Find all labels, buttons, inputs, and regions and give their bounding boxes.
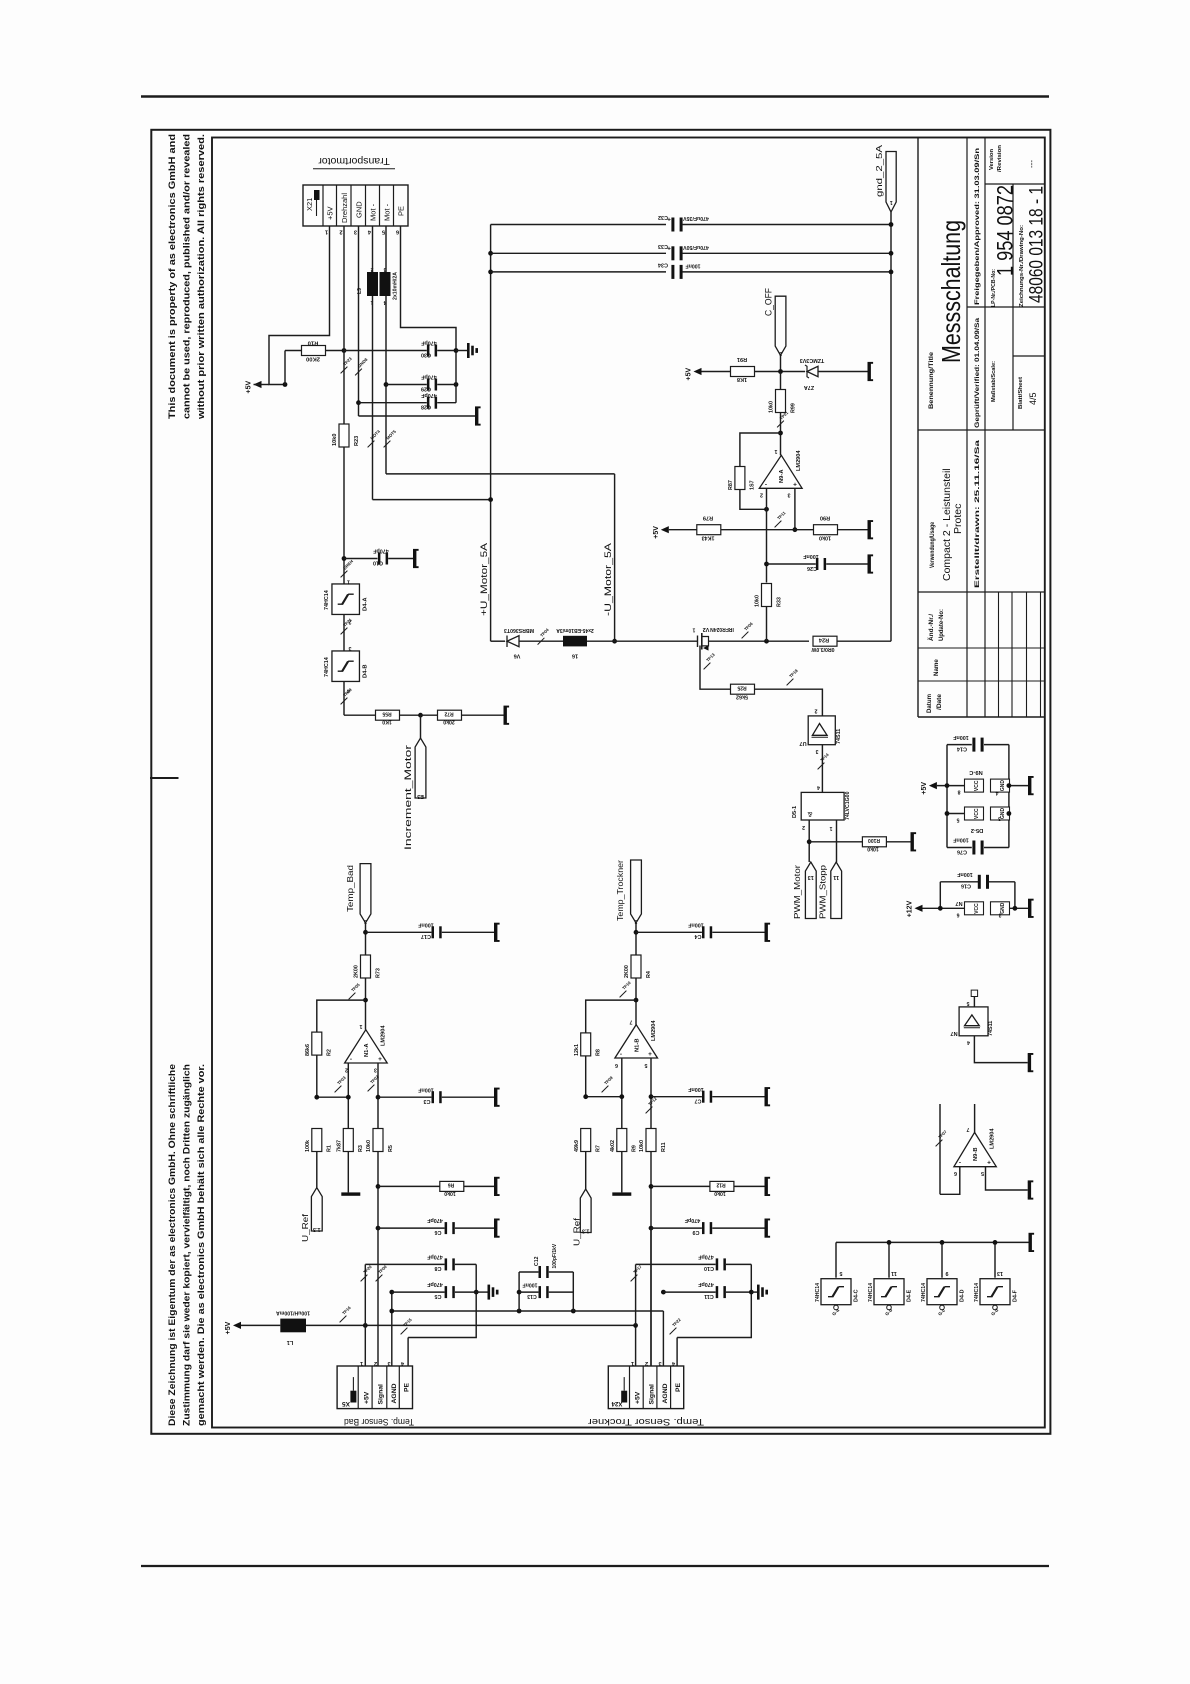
net marker: [704, 663, 711, 670]
+5V supply arrow left: [254, 381, 262, 388]
svg-text:2: 2: [645, 1360, 648, 1366]
svg-text:E3: E3: [417, 793, 424, 799]
ground: [1028, 778, 1031, 794]
net marker: [602, 1086, 609, 1093]
svg-text:C16: C16: [961, 883, 971, 889]
svg-text:AGND: AGND: [391, 1383, 398, 1403]
junction: [764, 639, 769, 644]
svg-text:R99: R99: [790, 403, 796, 413]
svg-text:Erstellt/drawn: 25.11.16/Sa: Erstellt/drawn: 25.11.16/Sa: [974, 439, 981, 588]
resistor R7: [581, 1129, 591, 1152]
wire C8b row right channel: [636, 1263, 716, 1265]
svg-text:cannot be used, reproduced, pu: cannot be used, reproduced, published an…: [182, 134, 192, 419]
svg-text:74HC14: 74HC14: [921, 1283, 927, 1302]
junction: [488, 270, 493, 275]
wire V2 gate: [700, 646, 731, 690]
net flag U_Ref right: [580, 1189, 591, 1233]
junction: [342, 348, 347, 353]
svg-text:+12V: +12V: [907, 900, 914, 917]
net marker: [384, 441, 391, 448]
ground: [765, 1178, 768, 1194]
wire C17 row: [366, 931, 432, 933]
capacitor C16: [940, 881, 978, 883]
svg-text:11: 11: [833, 874, 839, 880]
svg-text:D4-B: D4-B: [363, 664, 369, 678]
svg-text:10k0: 10k0: [366, 1140, 372, 1152]
net marker: [341, 628, 348, 635]
net marker: [341, 571, 348, 578]
svg-text:AGND: AGND: [662, 1383, 669, 1403]
connector X24 Temp Sensor Trockner: [608, 1366, 683, 1409]
svg-text:Version: Version: [989, 148, 995, 170]
svg-text:R1: R1: [327, 1145, 333, 1152]
svg-text:12k1: 12k1: [574, 1044, 580, 1056]
net marker: [341, 367, 348, 374]
svg-text:D5-2: D5-2: [971, 827, 984, 833]
junction: [749, 1290, 754, 1295]
wire AGND column: [391, 1292, 393, 1366]
junction: [807, 839, 812, 844]
svg-text:100nF: 100nF: [686, 262, 701, 268]
wire N9-A pin2 chain: [766, 488, 768, 582]
svg-text:3: 3: [788, 492, 791, 498]
svg-text:/Date: /Date: [937, 693, 943, 710]
svg-text:Verwendung/Usage: Verwendung/Usage: [929, 522, 936, 568]
svg-text:LM2904: LM2904: [990, 1128, 996, 1149]
svg-text:C32: C32: [658, 214, 668, 220]
wire C7 row: [651, 1096, 702, 1098]
wire Drehzahl net: [343, 226, 345, 424]
net marker: [341, 698, 348, 705]
svg-text:X21: X21: [305, 198, 314, 211]
wire R3 to ground: [347, 1152, 349, 1193]
resistor R24: [813, 636, 837, 646]
+5V supply arrow bias rail: [661, 526, 669, 533]
wire N1-A pin2: [347, 1063, 349, 1129]
net marker: [818, 763, 825, 770]
junction: [488, 251, 493, 256]
wire N1-A pin3: [377, 1063, 379, 1129]
svg-text:PE: PE: [404, 1382, 411, 1392]
net marker: [355, 369, 362, 376]
svg-text:Maßstab/Scale:: Maßstab/Scale:: [991, 361, 997, 402]
svg-text:L1: L1: [287, 1339, 294, 1345]
capacitor C8: [445, 1258, 448, 1270]
svg-text:TZMC3V3: TZMC3V3: [800, 357, 825, 363]
+12V supply arrow N7: [915, 905, 923, 912]
wire X5 PE column: [407, 1338, 409, 1367]
svg-text:D4-C: D4-C: [854, 1289, 860, 1302]
svg-text:R7: R7: [596, 1145, 602, 1152]
wire R73 to N1-A out: [365, 978, 367, 1030]
svg-text:470pF: 470pF: [427, 1281, 443, 1287]
svg-text:C29: C29: [421, 385, 431, 391]
svg-text:Signal: Signal: [649, 1384, 656, 1405]
svg-text:Z7A: Z7A: [804, 384, 814, 390]
net flag Increment_Motor: [415, 738, 426, 798]
svg-text:N9-B: N9-B: [973, 1147, 979, 1161]
svg-text:Freigegeben/Approved: 31.03.0: Freigegeben/Approved: 31.03.09/Sn: [974, 148, 981, 305]
net marker: [646, 1107, 653, 1114]
svg-text:+5V: +5V: [686, 368, 693, 381]
svg-text:6: 6: [615, 1062, 618, 1068]
ground: [494, 1220, 497, 1236]
svg-text:Zustimmung darf sie weder kopi: Zustimmung darf sie weder kopiert, vervi…: [182, 1064, 192, 1426]
svg-text:-: -: [350, 1056, 352, 1063]
ground: [504, 707, 507, 723]
svg-text:U7: U7: [799, 740, 806, 746]
svg-text:U_Ref: U_Ref: [301, 1213, 310, 1242]
svg-text:0R0/3.0W: 0R0/3.0W: [811, 646, 834, 652]
svg-text:without prior written authoriz: without prior written authorization. All…: [196, 134, 206, 420]
svg-text:L9: L9: [357, 288, 363, 294]
svg-text:1K0: 1K0: [382, 719, 392, 725]
resistor R9: [617, 1129, 627, 1152]
capacitor C10: [378, 553, 381, 565]
svg-text:470pF: 470pF: [427, 1254, 443, 1260]
wire N1-B pin5: [650, 1058, 652, 1129]
svg-text:Zeichnungs-Nr./Drawing-No:: Zeichnungs-Nr./Drawing-No:: [1019, 225, 1025, 307]
resistor R11: [646, 1129, 656, 1152]
svg-text:+: +: [793, 482, 797, 489]
resistor R72: [438, 710, 462, 720]
junction: [1007, 783, 1012, 788]
wire C16 left vertical: [939, 882, 941, 909]
junction: [376, 1095, 381, 1100]
svg-text:Temp_Trockner: Temp_Trockner: [615, 860, 625, 921]
svg-text:C6: C6: [435, 1229, 442, 1235]
wire X24 AGND column: [662, 1311, 664, 1366]
net marker: [775, 521, 782, 528]
junction: [346, 1095, 351, 1100]
wire R100 row: [809, 841, 862, 843]
svg-text:R2: R2: [327, 1049, 333, 1056]
junction: [889, 251, 894, 256]
svg-text:+5V: +5V: [364, 1391, 371, 1404]
junction: [1007, 811, 1012, 816]
svg-text:Temp. Sensor Trockner: Temp. Sensor Trockner: [588, 1416, 704, 1427]
svg-text:9: 9: [946, 1270, 949, 1276]
svg-text:1: 1: [347, 579, 350, 585]
svg-text:C5: C5: [435, 1293, 442, 1299]
svg-text:R91: R91: [737, 356, 747, 362]
nand gate D5-1 74LVC1G00: [801, 792, 844, 820]
wire C_OFF to rail: [780, 355, 782, 371]
wire R4 to N1-B out: [635, 978, 637, 1025]
junction: [612, 639, 617, 644]
svg-text:---: ---: [1027, 160, 1036, 168]
svg-text:PE: PE: [397, 206, 406, 216]
wire R12 row: [651, 1185, 710, 1187]
capacitor C13: [519, 1291, 538, 1293]
net marker: [742, 632, 749, 639]
svg-text:470pF: 470pF: [421, 374, 437, 380]
svg-text:X5: X5: [342, 1400, 350, 1407]
net flag C_OFF: [775, 296, 786, 355]
svg-text:N1-B: N1-B: [635, 1038, 641, 1052]
svg-text:C30: C30: [421, 351, 431, 357]
+5V supply arrow: [694, 368, 702, 375]
svg-text:+5V: +5V: [246, 381, 253, 394]
svg-text:2x45-EB10m/3A: 2x45-EB10m/3A: [556, 627, 594, 633]
svg-text:74HC14: 74HC14: [324, 590, 330, 610]
wire X24 signal column: [650, 1228, 652, 1366]
net marker: [777, 421, 784, 428]
junction: [517, 1290, 522, 1295]
wire R7 to U_Ref: [585, 1152, 587, 1190]
wire C14 right vertical: [1008, 745, 1010, 848]
svg-text:470pF: 470pF: [698, 1254, 714, 1260]
junction: [363, 1323, 368, 1328]
svg-text:2: 2: [802, 824, 805, 830]
svg-text:470pF: 470pF: [421, 340, 437, 346]
wire D4-B out: [343, 682, 345, 716]
wire GND to ground: [359, 415, 476, 417]
connector X5 Temp Sensor Bad: [337, 1366, 412, 1409]
svg-text:4: 4: [967, 1039, 970, 1045]
wire feedback to R87: [740, 433, 781, 467]
wire N9-B left input net: [939, 1104, 941, 1194]
svg-text:Datum: Datum: [927, 694, 933, 713]
svg-text:2: 2: [374, 1360, 377, 1366]
choke L9: [367, 272, 378, 296]
page footer rule: [141, 1565, 1049, 1567]
svg-text:Mot -: Mot -: [383, 203, 392, 221]
resistor R5: [373, 1129, 383, 1152]
wire D4-A to D4-B: [343, 615, 345, 652]
svg-text:C10: C10: [704, 1265, 714, 1271]
svg-text:PWM_Motor: PWM_Motor: [793, 865, 802, 919]
svg-text:Temp_Bad: Temp_Bad: [345, 865, 355, 912]
svg-text:13: 13: [997, 1270, 1003, 1276]
svg-text:V6: V6: [514, 653, 521, 659]
junction: [633, 1323, 638, 1328]
svg-text:3: 3: [998, 815, 1001, 821]
wire feedback R8: [586, 1000, 636, 1033]
svg-text:2K00: 2K00: [306, 355, 320, 361]
junction: [634, 930, 639, 935]
wire C28 row: [359, 402, 427, 404]
net marker: [368, 1085, 375, 1092]
chassis ground: [751, 1291, 757, 1293]
wire pin2 row: [317, 1096, 349, 1098]
junction: [389, 1290, 394, 1295]
wire C9 row: [651, 1227, 702, 1229]
svg-text:4k02: 4k02: [610, 1140, 616, 1152]
ground: [765, 1220, 768, 1236]
junction: [363, 930, 368, 935]
svg-text:C10: C10: [373, 559, 383, 565]
svg-text:N1-A: N1-A: [364, 1043, 370, 1057]
svg-text:LP-Nr./PCB-No:: LP-Nr./PCB-No:: [991, 269, 997, 307]
svg-text:100nF: 100nF: [418, 1086, 434, 1092]
svg-text:100nF: 100nF: [803, 553, 819, 559]
wire R10 left lead: [284, 351, 286, 385]
svg-text:Name: Name: [933, 659, 940, 676]
svg-text:2K00: 2K00: [354, 965, 360, 978]
wire R99 to N9-A out: [780, 413, 782, 456]
wire R5 chain down: [377, 1152, 379, 1367]
schmitt trigger D4-E: [888, 1242, 890, 1277]
svg-text:GND: GND: [355, 201, 364, 218]
svg-text:gnd_2_5A: gnd_2_5A: [875, 144, 884, 197]
wire feedback R2: [317, 1000, 366, 1032]
junction: [389, 1309, 394, 1314]
capacitor C10b: [716, 1258, 719, 1270]
svg-text:+: +: [378, 1056, 382, 1063]
junction: [314, 1095, 319, 1100]
svg-text:74S11: 74S11: [836, 729, 842, 744]
svg-text:X24: X24: [611, 1400, 623, 1407]
net marker: [620, 991, 627, 998]
wire AGND row 1311: [392, 1310, 664, 1312]
wire C26 row: [767, 563, 816, 565]
wire C8 row: [365, 1263, 444, 1265]
svg-text:1K8: 1K8: [737, 376, 747, 382]
net marker: [349, 993, 356, 1000]
wire C10 row: [344, 558, 378, 560]
svg-text:VCC: VCC: [974, 808, 980, 819]
net marker: [631, 1275, 638, 1282]
junction: [649, 1094, 654, 1099]
svg-text:Messschaltung: Messschaltung: [936, 220, 966, 363]
wire C32 row: [491, 224, 666, 226]
wire N9-B output stub: [974, 1104, 976, 1132]
capacitor C4: [702, 926, 705, 938]
net flag Temp_Trockner: [631, 860, 642, 923]
junction: [376, 1184, 381, 1189]
svg-text:+5V: +5V: [635, 1391, 642, 1404]
junction: [945, 783, 950, 788]
capacitor C11: [716, 1286, 719, 1298]
svg-text:R11: R11: [661, 1142, 667, 1152]
svg-text:74HC14: 74HC14: [324, 657, 330, 677]
junction: [649, 1184, 654, 1189]
wire N1-B pin6: [621, 1058, 623, 1129]
ground: [868, 364, 871, 380]
svg-text:-U_Motor_5A: -U_Motor_5A: [603, 543, 613, 616]
svg-text:PE: PE: [675, 1382, 682, 1392]
svg-text:Update-No:: Update-No:: [939, 609, 945, 641]
svg-text:5: 5: [645, 1062, 648, 1068]
svg-text:3: 3: [815, 748, 818, 754]
resistor R3: [343, 1129, 353, 1152]
svg-text:Änd.-Nr./: Änd.-Nr./: [928, 614, 935, 641]
wire X5 signal column marker: [376, 1275, 383, 1282]
wire R6 row: [378, 1185, 440, 1187]
wire pin6 row: [586, 1096, 622, 1098]
wire X24 PE column: [676, 1338, 678, 1367]
net marker: [361, 1275, 368, 1282]
resistor R91: [731, 367, 755, 377]
ground: [1028, 1055, 1031, 1071]
svg-text:C34: C34: [658, 262, 668, 268]
svg-text:R55: R55: [382, 711, 391, 717]
svg-text:2: 2: [815, 708, 818, 714]
junction: [418, 713, 423, 718]
junction: [619, 1094, 624, 1099]
svg-text:Benennung/Title: Benennung/Title: [928, 351, 935, 409]
svg-text:48060 013 18 - 1: 48060 013 18 - 1: [1027, 186, 1048, 303]
svg-text:74LVC1G00: 74LVC1G00: [845, 791, 851, 820]
connector X21: [303, 185, 408, 226]
svg-text:N9-C: N9-C: [968, 769, 982, 775]
net marker: [936, 1140, 943, 1147]
ground: [413, 551, 416, 567]
wire U7 to D5-1: [821, 745, 823, 793]
svg-text:5: 5: [981, 1170, 984, 1176]
shunt resistor R16: [563, 636, 587, 647]
svg-text:U_Ref: U_Ref: [573, 1217, 582, 1246]
junction: [778, 431, 783, 436]
net marker: [340, 1316, 347, 1323]
resistor R12: [710, 1181, 734, 1191]
svg-text:100nF: 100nF: [688, 921, 704, 927]
svg-text:1: 1: [360, 1023, 363, 1029]
svg-text:D4-D: D4-D: [960, 1289, 966, 1302]
schmitt trigger D4-B: [332, 651, 360, 682]
wire C16 right vertical: [1014, 882, 1016, 909]
svg-text:C14: C14: [957, 746, 967, 752]
wire C33 row: [491, 252, 666, 254]
svg-text:/Revision: /Revision: [997, 144, 1003, 172]
wire to Increment_Motor flag: [420, 715, 422, 738]
capacitor C14: [947, 744, 972, 746]
net flag U_Ref left: [311, 1188, 322, 1231]
junction: [376, 1226, 381, 1231]
schmitt trigger D4-D: [941, 1242, 943, 1277]
svg-text:100nF: 100nF: [953, 734, 969, 740]
svg-text:1: 1: [360, 1360, 363, 1366]
svg-text:100nF: 100nF: [523, 1282, 538, 1288]
diode V6 MBRS360T3: [507, 636, 519, 647]
schmitt trigger D4-C: [835, 1242, 837, 1277]
svg-text:10k0: 10k0: [819, 535, 831, 541]
wire spare gates rail: [836, 1241, 1029, 1243]
svg-text:Drehzahl: Drehzahl: [340, 193, 349, 223]
resistor R99: [776, 390, 786, 413]
svg-text:V2: V2: [703, 626, 710, 632]
svg-text:Mot -: Mot -: [369, 203, 378, 221]
junction: [384, 382, 389, 387]
net marker: [368, 441, 375, 448]
svg-text:6: 6: [954, 1170, 957, 1176]
svg-text:2: 2: [760, 492, 763, 498]
wire C12 C13 right vertical: [572, 1272, 574, 1311]
svg-text:C12: C12: [534, 1256, 540, 1266]
svg-text:R72: R72: [444, 711, 453, 717]
svg-text:R9: R9: [632, 1145, 638, 1152]
svg-text:7: 7: [967, 1126, 970, 1132]
svg-text:74HC14: 74HC14: [815, 1283, 821, 1302]
wire C14 left vertical: [946, 745, 948, 848]
svg-text:10k0: 10k0: [769, 401, 775, 413]
wire Temp_Trockner node: [635, 923, 637, 955]
svg-text:4/5: 4/5: [1028, 392, 1038, 405]
inner drawing frame: [212, 138, 1045, 1428]
wire +U_Motor_5A trunk: [490, 225, 492, 642]
ground: [1029, 1234, 1032, 1250]
capacitor C30: [427, 345, 430, 357]
wire C8 right to PE link: [408, 1264, 476, 1337]
ground: [765, 924, 768, 940]
zener diode Z7A TZMC3V3: [807, 366, 818, 376]
resistor R4: [631, 955, 641, 978]
ground: [475, 408, 478, 424]
wire right PE link: [677, 1264, 751, 1337]
svg-text:470pF: 470pF: [427, 1217, 443, 1223]
capacitor C26: [816, 558, 819, 570]
